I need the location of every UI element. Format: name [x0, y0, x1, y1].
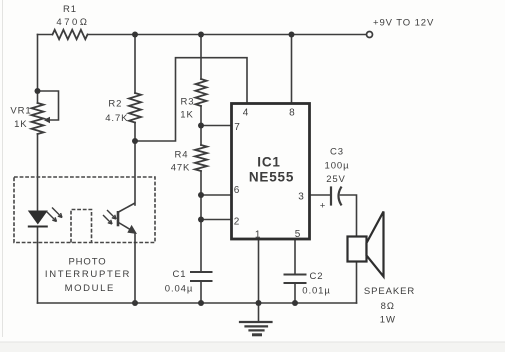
- wire left rail lower: [37, 227, 39, 303]
- node C1 bottom junction: [198, 300, 204, 306]
- svg-text:VR1: VR1: [10, 106, 31, 117]
- svg-text:C2: C2: [310, 271, 324, 282]
- op-amp/timer IC1 box: [232, 104, 310, 240]
- LED D1: [28, 208, 62, 227]
- svg-text:R1: R1: [63, 4, 77, 15]
- VR1 wiper arrowhead: [44, 117, 50, 123]
- potentiometer VR1: [32, 103, 44, 134]
- svg-text:4: 4: [243, 108, 249, 119]
- wire top rail: [38, 34, 53, 36]
- wire C1 bottom: [200, 281, 202, 303]
- svg-text:C3: C3: [330, 147, 344, 158]
- capacitor C2: [285, 274, 306, 276]
- LED light arrows: [47, 208, 63, 222]
- slot notch: [71, 210, 92, 243]
- wire R2 top: [134, 35, 136, 94]
- node ground junction: [256, 300, 262, 306]
- wire R4 bottom to pin 6: [201, 171, 230, 195]
- wire pin 5 down: [294, 240, 296, 275]
- speaker SPK1: [348, 212, 384, 277]
- ground: [258, 303, 260, 322]
- svg-text:47K: 47K: [171, 163, 191, 174]
- svg-text:3: 3: [298, 192, 304, 203]
- wire bottom rail: [38, 302, 357, 304]
- svg-text:R3: R3: [181, 97, 195, 108]
- node pin6 junction: [198, 192, 204, 198]
- wire junction to phototransistor collector: [134, 141, 136, 205]
- svg-text:1K: 1K: [14, 119, 27, 130]
- svg-text:8: 8: [289, 108, 295, 119]
- svg-text:INTERRUPTER: INTERRUPTER: [45, 269, 131, 280]
- wire R3 top: [200, 35, 202, 80]
- wire left rail middle: [37, 134, 39, 211]
- svg-text:1K: 1K: [180, 110, 193, 121]
- wire C2 bottom: [294, 283, 296, 303]
- node pin8 junction: [289, 32, 295, 38]
- wire VR1 wiper loop: [38, 91, 59, 120]
- node R1-R2 junction: [132, 32, 138, 38]
- svg-text:1: 1: [255, 230, 261, 241]
- node +V terminal: [367, 32, 373, 38]
- wire speaker bottom: [356, 261, 358, 303]
- svg-text:1W: 1W: [380, 315, 396, 326]
- collector: [119, 203, 136, 212]
- node R3-R4 junction: [198, 123, 204, 129]
- capacitor C1: [191, 271, 212, 273]
- svg-text:+: +: [320, 201, 326, 212]
- node R3 top junction: [198, 32, 204, 38]
- wire pin 8 riser: [291, 35, 293, 104]
- svg-text:0.04µ: 0.04µ: [165, 284, 193, 295]
- node VR1 top junction: [35, 88, 41, 94]
- svg-text:C1: C1: [173, 269, 187, 280]
- svg-text:8Ω: 8Ω: [381, 301, 395, 312]
- wire pin 3 to C3: [311, 194, 331, 196]
- photo interrupter module dashed box: [14, 177, 155, 243]
- capacitor C3 electrolytic: [330, 188, 332, 205]
- node pin2 junction: [198, 217, 204, 223]
- scan edge artifact bottom: [0, 342, 505, 352]
- svg-text:5: 5: [295, 229, 301, 240]
- wire R3-R4 link: [200, 126, 202, 146]
- resistor R4: [195, 145, 207, 171]
- svg-text:+9V TO 12V: +9V TO 12V: [373, 18, 434, 29]
- resistor R2: [129, 93, 141, 123]
- svg-text:0.01µ: 0.01µ: [302, 286, 330, 297]
- wire pin 2: [201, 195, 230, 220]
- svg-text:MODULE: MODULE: [65, 283, 115, 294]
- wire to C1: [200, 220, 202, 273]
- svg-text:PHOTO: PHOTO: [68, 257, 106, 268]
- svg-text:SPEAKER: SPEAKER: [364, 286, 415, 297]
- resistor R3: [196, 79, 207, 106]
- svg-text:100µ: 100µ: [325, 161, 350, 172]
- svg-text:R2: R2: [108, 99, 122, 110]
- svg-text:25V: 25V: [326, 174, 346, 185]
- wire R2 junction to pin 4: [135, 58, 247, 141]
- scan edge artifact left: [2, 0, 3, 337]
- wire R2 bottom to junction: [134, 123, 136, 142]
- wire C3 to speaker: [341, 195, 357, 237]
- wire emitter down: [134, 233, 136, 304]
- node R2 bottom junction: [132, 138, 138, 144]
- svg-text:NE555: NE555: [249, 170, 294, 185]
- svg-text:2: 2: [234, 217, 240, 228]
- svg-text:4.7K: 4.7K: [105, 113, 128, 124]
- resistor R1: [53, 30, 88, 39]
- svg-text:7: 7: [234, 122, 240, 133]
- light arrows into base: [103, 215, 112, 224]
- emitter: [119, 223, 132, 231]
- svg-text:IC1: IC1: [257, 155, 280, 170]
- svg-text:R4: R4: [175, 150, 189, 161]
- wire pin 1 down: [258, 240, 260, 304]
- wire R3 bottom to pin 7: [201, 106, 230, 126]
- phototransistor Q1: [103, 203, 137, 303]
- node C2 bottom junction: [292, 300, 298, 306]
- svg-text:470Ω: 470Ω: [56, 17, 89, 28]
- svg-text:6: 6: [234, 185, 240, 196]
- wire left rail upper: [37, 35, 39, 104]
- node emitter-bottom junction: [132, 300, 138, 306]
